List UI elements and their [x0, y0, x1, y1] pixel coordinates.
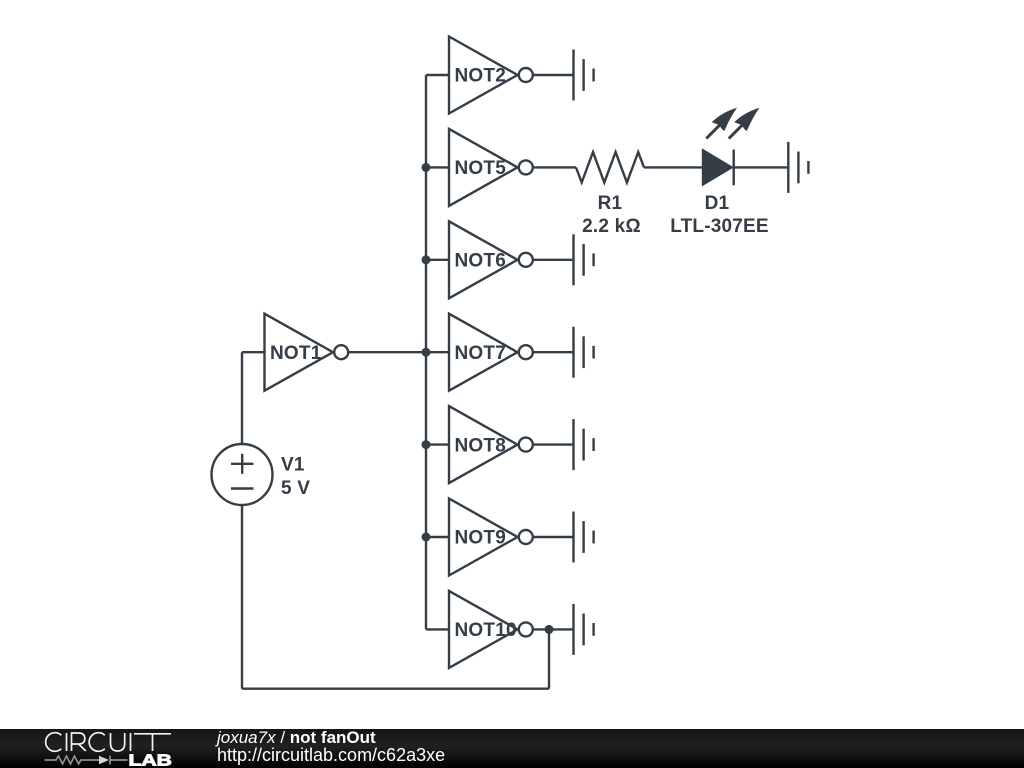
svg-text:NOT8: NOT8 — [455, 435, 506, 456]
wire NOT10 output to ground — [533, 628, 574, 630]
ground at NOT10 — [574, 604, 594, 655]
logo letter U — [111, 733, 125, 751]
inverter NOT10 — [449, 591, 533, 668]
wire NOT7 output to ground — [533, 351, 574, 353]
LED D1 — [703, 150, 734, 186]
voltage source V1 — [212, 444, 273, 505]
svg-text:2.2 kΩ: 2.2 kΩ — [582, 216, 641, 237]
inverter NOT8 — [449, 406, 533, 483]
logo resistor-diode squiggle — [45, 756, 128, 765]
svg-text:NOT9: NOT9 — [455, 528, 506, 549]
wire V1 bottom down — [241, 505, 243, 689]
wire R1 to D1 — [644, 166, 703, 168]
resistor R1 — [576, 152, 644, 182]
svg-text:NOT1: NOT1 — [270, 343, 322, 364]
svg-text:NOT2: NOT2 — [455, 66, 506, 87]
ground at NOT6 — [574, 234, 594, 285]
svg-text:D1: D1 — [705, 193, 730, 214]
wire NOT1 input down to V1 — [241, 352, 243, 444]
wire NOT6 output to ground — [533, 259, 574, 261]
inverter NOT6 — [449, 221, 533, 298]
svg-text:V1: V1 — [281, 455, 305, 476]
logo letter T — [134, 734, 171, 751]
svg-text:NOT5: NOT5 — [455, 158, 507, 179]
wire NOT8 output to ground — [533, 443, 574, 445]
ground at NOT7 — [574, 327, 594, 378]
logo letter R — [72, 733, 86, 751]
wire bus to NOT5 input — [426, 166, 449, 168]
footer title joxua7x / not fanOut — [217, 729, 376, 746]
wire bus to NOT2 input — [426, 74, 449, 76]
svg-text:LTL-307EE: LTL-307EE — [670, 216, 769, 237]
svg-text:NOT6: NOT6 — [455, 251, 506, 272]
svg-text:R1: R1 — [598, 193, 623, 214]
junction on bus at NOT9 — [422, 533, 431, 542]
footer url — [217, 746, 445, 764]
junction on bus at NOT6 — [422, 255, 431, 264]
LED arrow 1 — [706, 108, 737, 139]
wire D1 to ground — [734, 166, 789, 168]
svg-text:NOT10: NOT10 — [455, 620, 517, 641]
ground at D1 — [788, 142, 808, 193]
logo letter I — [130, 733, 132, 751]
wire bus to NOT7 input — [426, 351, 449, 353]
ground at NOT8 — [574, 419, 594, 470]
wire NOT9 output to ground — [533, 536, 574, 538]
inverter NOT1 — [265, 314, 349, 391]
junction on bus at NOT5 — [422, 163, 431, 172]
inverter NOT7 — [449, 314, 533, 391]
wire bus to NOT9 input — [426, 536, 449, 538]
junction on bus at NOT8 — [422, 440, 431, 449]
logo letter C — [89, 733, 105, 752]
wire bus to NOT8 input — [426, 443, 449, 445]
logo letter I — [66, 733, 68, 751]
LED arrow 2 — [729, 108, 760, 139]
inverter NOT5 — [449, 129, 533, 206]
svg-text:NOT7: NOT7 — [455, 343, 506, 364]
ground at NOT9 — [574, 512, 594, 563]
ground at NOT2 — [574, 50, 594, 101]
inverter NOT9 — [449, 499, 533, 576]
wire NOT2 output to ground — [533, 74, 574, 76]
CircuitLab logo — [40, 729, 185, 768]
wire NOT5 output to R1 — [533, 166, 576, 168]
footer bar — [0, 729, 1024, 768]
svg-text:LAB: LAB — [129, 751, 172, 768]
junction on bus at NOT7 — [422, 348, 431, 357]
wire vertical bus — [425, 75, 427, 629]
wire NOT1 input — [242, 351, 265, 353]
wire bottom horizontal — [242, 688, 549, 690]
svg-text:5 V: 5 V — [281, 478, 310, 499]
junction at NOT10 output — [545, 625, 554, 634]
inverter NOT2 — [449, 37, 533, 114]
wire bus to NOT10 input — [426, 628, 449, 630]
wire bus to NOT6 input — [426, 259, 449, 261]
wire NOT1 output to bus — [348, 351, 426, 353]
logo letter C — [46, 733, 62, 752]
wire up to NOT10 output junction — [548, 629, 550, 688]
